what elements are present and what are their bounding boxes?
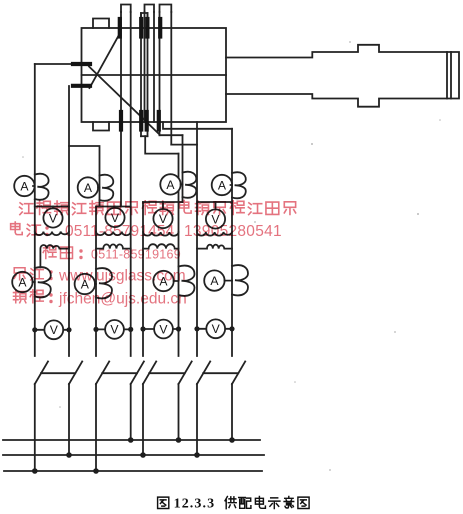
switch QS4 pole R bbox=[231, 384, 233, 440]
electrode bar bottom 4 bbox=[157, 112, 161, 130]
svg-text:12.3.3: 12.3.3 bbox=[174, 497, 216, 512]
electrode bar bottom 2 bbox=[139, 112, 143, 130]
watermark line4 colon bbox=[49, 270, 52, 280]
svg-text:0511-85919169: 0511-85919169 bbox=[91, 248, 181, 262]
watermark line1 char8 bbox=[142, 201, 156, 215]
switch QS3 link bar bbox=[149, 372, 185, 374]
current transformer CT8 bbox=[232, 265, 248, 295]
furnace top-left tab bbox=[93, 19, 109, 29]
caption tu 1 bbox=[158, 497, 169, 508]
electrode loop 2 top bbox=[145, 5, 155, 13]
transformer T1 primary winding bbox=[35, 231, 69, 235]
caption shi bbox=[269, 498, 280, 509]
transformer T4 secondary winding bbox=[197, 245, 232, 249]
junction dot bus QS3L bbox=[140, 452, 146, 458]
electrode loop 1 top bbox=[121, 5, 131, 13]
watermark line2 colon bbox=[45, 226, 48, 236]
current transformer CT6 bbox=[96, 268, 112, 298]
watermark line1 char7 bbox=[126, 202, 137, 215]
watermark line2 char1 bbox=[11, 222, 23, 235]
wire col2 left vertical bbox=[95, 207, 97, 357]
junction dot bus QS3R bbox=[176, 437, 182, 443]
shaft end line 1 bbox=[446, 52, 448, 99]
wire small loop right leg bbox=[147, 13, 149, 136]
contact bar left lower bbox=[73, 84, 90, 88]
ammeter PA4 bbox=[212, 175, 232, 195]
voltmeter PV6 bbox=[105, 320, 124, 339]
ammeter PA2 bbox=[78, 177, 98, 197]
svg-text:jfchen@ujs.edu.cn: jfchen@ujs.edu.cn bbox=[58, 291, 187, 308]
wire loop3L feeder to col3 CT bbox=[160, 134, 183, 136]
switch QS1 pole R bbox=[68, 384, 70, 455]
watermark line5 char1 bbox=[14, 290, 27, 303]
wire small loop bottom U bbox=[141, 135, 148, 137]
watermark line5 colon bbox=[49, 293, 52, 303]
wire loop2 right leg bbox=[153, 12, 155, 122]
caption 图 12.3.3 供配电示意图 bbox=[158, 497, 310, 509]
svg-text:13905280541: 13905280541 bbox=[184, 223, 282, 240]
ammeter PA1 bbox=[14, 176, 34, 196]
watermark line1 char5 bbox=[90, 201, 103, 214]
scan speckles bbox=[22, 41, 441, 471]
transformer T2 primary winding bbox=[96, 232, 131, 236]
switch QS2 link bar bbox=[102, 372, 137, 374]
junction dot bus QS1R bbox=[66, 452, 72, 458]
voltmeter PV1 stub bbox=[52, 207, 54, 209]
svg-text:V: V bbox=[110, 323, 119, 337]
contact bar left upper bbox=[73, 62, 90, 66]
watermark line1 char15 bbox=[266, 202, 279, 214]
voltmeter PV5 bbox=[44, 320, 63, 339]
switch QS1 blade R bbox=[69, 362, 82, 385]
wire bar1 to left bbox=[35, 63, 73, 65]
voltmeter PV2 bbox=[105, 208, 124, 227]
tick PA2 to wire bbox=[98, 187, 100, 189]
ammeter PA7 bbox=[153, 271, 173, 291]
watermark line1 char6 bbox=[108, 202, 121, 214]
wire U-loop feeder to col3 right bbox=[145, 136, 178, 153]
svg-text:www.ujsglass.com: www.ujsglass.com bbox=[58, 268, 186, 285]
watermark line3 char1 bbox=[43, 246, 56, 259]
current transformer CT1 bbox=[35, 174, 49, 200]
junction dot V1 L bbox=[32, 327, 37, 332]
switch QS2 blade L bbox=[96, 362, 109, 385]
switch QS3 blade L bbox=[143, 362, 156, 385]
voltmeter PV1 bbox=[43, 208, 62, 227]
watermark line5 char2 bbox=[30, 290, 43, 303]
node top wire col3 bbox=[143, 201, 183, 203]
wire loop2 left leg bbox=[144, 12, 146, 122]
switch QS2 pole L bbox=[95, 384, 97, 471]
switch QS4 pole L bbox=[196, 384, 198, 455]
caption yi bbox=[284, 497, 294, 509]
watermark line4 char1 bbox=[14, 268, 25, 280]
watermark line1 char14 bbox=[248, 203, 261, 215]
electrode bar bottom 1 bbox=[119, 112, 123, 130]
node V-wire col2 bbox=[96, 328, 131, 330]
svg-text:A: A bbox=[20, 180, 29, 194]
current transformer CT7 bbox=[179, 266, 195, 296]
watermark line1 char3 bbox=[55, 201, 68, 214]
crossing diagonal D1 bbox=[89, 67, 159, 135]
wire col3 right vertical bbox=[178, 154, 180, 356]
voltmeter PV3 stub bbox=[162, 202, 164, 209]
wire box stub feeder to col4 CT bbox=[163, 122, 232, 129]
caption pei bbox=[239, 498, 251, 509]
caption dian bbox=[255, 497, 265, 509]
ammeter PA3 bbox=[160, 174, 180, 194]
wire loop3 left leg bbox=[159, 12, 161, 135]
wire loop3 right leg bbox=[170, 12, 172, 145]
voltmeter PV3 bbox=[153, 209, 172, 228]
transformer T3 secondary winding bbox=[143, 244, 179, 248]
voltmeter PV2 stub bbox=[114, 207, 116, 209]
ammeter PA8 bbox=[204, 270, 224, 290]
watermark line1 char12 bbox=[214, 202, 225, 215]
voltmeter PV4 stub bbox=[215, 202, 217, 210]
ammeter PA5 bbox=[12, 272, 32, 292]
current transformer CT2 bbox=[100, 175, 114, 201]
wire col4 left vertical bbox=[196, 122, 198, 356]
crossing diagonal D2 bbox=[90, 34, 120, 88]
junction dot V2 L bbox=[93, 327, 98, 332]
junction dot V2 R bbox=[128, 327, 133, 332]
svg-text:V: V bbox=[212, 322, 221, 336]
node top wire col1 bbox=[35, 206, 69, 208]
electrode bar top 2 bbox=[139, 19, 143, 37]
tick PA7 to wire bbox=[174, 280, 179, 282]
current transformer CT4 bbox=[232, 172, 246, 198]
svg-text:A: A bbox=[218, 179, 227, 193]
switch QS1 link bar bbox=[41, 372, 75, 374]
wire col3 CT drop bbox=[182, 135, 184, 202]
watermark line1 char4 bbox=[72, 203, 85, 215]
svg-text:A: A bbox=[210, 274, 219, 288]
ammeter PA6 bbox=[75, 274, 95, 294]
caption tu 2 bbox=[298, 497, 309, 508]
watermark line1 char9 bbox=[160, 201, 173, 214]
switch QS3 pole R bbox=[178, 384, 180, 440]
junction dot bus QS4R bbox=[229, 437, 235, 443]
switch QS3 pole L bbox=[142, 384, 144, 455]
svg-text:0511-85791454: 0511-85791454 bbox=[65, 223, 175, 240]
bus line 1 bbox=[3, 439, 260, 441]
junction dot V4 R bbox=[229, 326, 234, 331]
svg-text:V: V bbox=[159, 322, 168, 336]
shaft end line 2 bbox=[450, 52, 452, 99]
junction dot V1 R bbox=[66, 327, 71, 332]
junction dot bus QS2R bbox=[128, 437, 134, 443]
watermark line1 char13 bbox=[230, 201, 244, 215]
tick PA4 to wire bbox=[231, 184, 233, 186]
watermark line1 char10 bbox=[180, 201, 192, 214]
switch QS1 pole L bbox=[34, 384, 36, 471]
watermark line3 colon bbox=[79, 249, 82, 259]
junction dot V3 R bbox=[176, 326, 181, 331]
wire loop1 right leg down col2 R bbox=[130, 12, 132, 356]
transformer T1 secondary winding bbox=[40, 245, 69, 267]
electrode bar top 1 bbox=[118, 19, 122, 37]
electrode bar bottom 3 bbox=[145, 112, 149, 130]
node V-wire col3 bbox=[143, 328, 179, 330]
watermark line3 char2 bbox=[61, 247, 73, 259]
wire col3 left vertical bbox=[142, 202, 144, 356]
junction dot V4 L bbox=[194, 326, 199, 331]
current transformer CT5 bbox=[35, 267, 51, 297]
switch QS4 blade L bbox=[197, 362, 210, 385]
transformer T4 primary winding bbox=[197, 232, 232, 236]
switch QS2 pole R bbox=[130, 384, 132, 440]
node V-wire col1 bbox=[35, 329, 69, 331]
furnace divider line bbox=[82, 74, 227, 76]
switch QS4 link bar bbox=[203, 372, 238, 374]
watermark line1 char2 bbox=[37, 201, 51, 215]
junction dot bus QS1L bbox=[32, 468, 38, 474]
node top wire col4 bbox=[197, 201, 232, 203]
furnace body box bbox=[82, 28, 227, 122]
voltmeter PV8 bbox=[206, 319, 225, 338]
tick PA1 to wire bbox=[33, 185, 35, 187]
wire loop3R feeder to col4 left bbox=[171, 144, 197, 146]
wire small loop left leg bbox=[140, 13, 142, 136]
discharge shaft outline bbox=[226, 45, 459, 107]
junction dot bus QS4L bbox=[194, 452, 200, 458]
caption gong bbox=[225, 497, 236, 509]
watermark line1 char1 bbox=[20, 203, 33, 215]
switch QS2 blade R bbox=[131, 362, 144, 385]
tick PA5 to wire bbox=[33, 281, 35, 283]
tick PA8 to wire bbox=[225, 280, 233, 282]
electrode loop 3 top bbox=[160, 5, 172, 13]
junction dot bus QS2L bbox=[93, 468, 99, 474]
svg-text:V: V bbox=[50, 323, 59, 337]
wire phase L col1 (vertical x=34.8) bbox=[34, 64, 36, 356]
electrode small loop top bbox=[141, 13, 148, 20]
tick PA6 to wire bbox=[95, 283, 96, 285]
current transformer CT3 bbox=[183, 172, 197, 198]
voltmeter PV7 bbox=[154, 320, 173, 339]
bus line 2 bbox=[3, 454, 264, 456]
transformer T3 primary winding bbox=[143, 232, 179, 236]
electrode bar top 3 bbox=[145, 19, 149, 37]
wire phase R col1 (vertical x=69) bbox=[68, 86, 70, 356]
watermark line4 char2 bbox=[31, 269, 44, 280]
voltmeter PV4 bbox=[206, 209, 225, 228]
electrode bar top 4 bbox=[158, 19, 162, 37]
watermark line2 char2 bbox=[27, 224, 40, 236]
watermark line1 char16 bbox=[284, 202, 295, 215]
tick PA3 to wire bbox=[181, 183, 183, 185]
switch QS4 blade R bbox=[232, 362, 245, 385]
watermark stamp bbox=[11, 201, 296, 308]
junction dot V3 L bbox=[140, 326, 145, 331]
node V-wire col4 bbox=[197, 328, 232, 330]
furnace bottom-left tab bbox=[93, 122, 109, 131]
wire branch to col2 CT bbox=[69, 146, 100, 207]
transformer T2 secondary winding bbox=[96, 244, 131, 248]
wire col4 right vertical bbox=[231, 129, 233, 356]
node top wire col2 bbox=[96, 206, 131, 208]
switch QS3 blade R bbox=[179, 362, 192, 385]
svg-text:A: A bbox=[84, 181, 93, 195]
svg-text:A: A bbox=[166, 178, 175, 192]
switch QS1 blade L bbox=[35, 362, 48, 385]
watermark line1 char11 bbox=[196, 201, 209, 214]
bus line 3 bbox=[4, 470, 262, 472]
wire loop1 left leg down to col2 bbox=[120, 12, 122, 207]
